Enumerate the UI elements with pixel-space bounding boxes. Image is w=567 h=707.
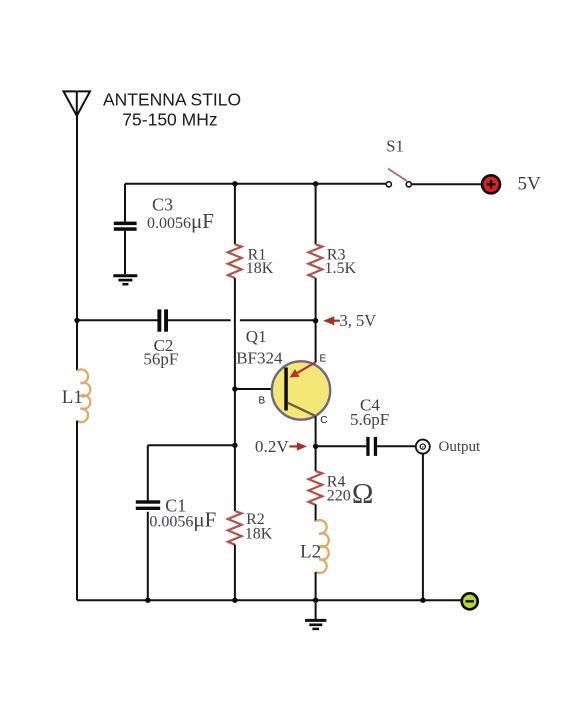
svg-text:BF324: BF324 (236, 348, 283, 367)
junction C1 bottom (145, 598, 150, 603)
wire: antenna lead down to L1 (76, 116, 78, 371)
capacitor C3 (114, 222, 137, 231)
inductor L1 (77, 369, 90, 422)
svg-text:1.5K: 1.5K (325, 260, 357, 277)
wire: C3 branch corner (124, 184, 126, 222)
svg-text:18K: 18K (246, 260, 274, 277)
svg-text:5V: 5V (518, 174, 542, 195)
wire: C1 branch top (148, 444, 235, 446)
capacitor C1 (136, 500, 160, 510)
wire: collector down (315, 416, 317, 471)
ground (bottom rail) (305, 600, 326, 629)
svg-text:Q1: Q1 (246, 327, 267, 346)
connector Output (416, 440, 430, 454)
wire: R3 rail upper (315, 184, 317, 245)
terminal +5V (482, 175, 500, 193)
wire: switch to +5V (411, 183, 482, 185)
svg-text:S1: S1 (386, 137, 403, 156)
svg-text:Output: Output (439, 439, 482, 455)
junction node 0.2V (313, 444, 318, 449)
svg-text:56pF: 56pF (143, 350, 178, 369)
switch S1 (386, 169, 411, 187)
ground (C3) (113, 276, 137, 285)
wire: C3 to ground (124, 231, 126, 274)
antenna (64, 91, 91, 115)
junction C1 branch (232, 443, 237, 448)
wire: R1 rail upper (234, 184, 236, 245)
svg-text:C: C (320, 415, 327, 426)
wire: output row left (316, 445, 367, 447)
wire: output row right (377, 445, 416, 447)
svg-text:C1: C1 (165, 496, 186, 516)
svg-text:L2: L2 (300, 542, 321, 563)
svg-text:ANTENNA STILO: ANTENNA STILO (103, 90, 241, 110)
junction R2 bottom (232, 598, 237, 603)
resistor R2 (228, 511, 242, 545)
svg-text:0.2V: 0.2V (255, 437, 289, 456)
terminal negative (462, 593, 478, 609)
transistor Q1 (272, 361, 330, 419)
wire: base lead (235, 388, 284, 390)
junction on top rail (R3) (313, 181, 318, 186)
junction node 3.5V (313, 318, 318, 323)
wire: L2 to bottom rail (315, 572, 317, 600)
wire: R4 to L2 (315, 504, 317, 521)
wire: L1 to bottom rail (76, 421, 78, 601)
svg-text:L1: L1 (62, 387, 83, 408)
svg-text:Ω: Ω (352, 478, 374, 510)
resistor R3 (309, 244, 323, 278)
wire: C1 to bottom rail (147, 512, 149, 601)
wire: top supply rail (125, 183, 386, 185)
wire: R2 to bottom rail (234, 545, 236, 601)
svg-text:E: E (320, 354, 327, 365)
junction L2 bottom (313, 598, 318, 603)
junction base node (232, 386, 237, 391)
svg-text:75-150 MHz: 75-150 MHz (122, 110, 217, 130)
arrow 0.2V (289, 442, 307, 450)
junction on top rail (R1) (232, 181, 237, 186)
svg-text:B: B (259, 396, 266, 407)
wire: output drop (422, 454, 424, 601)
junction output drop bottom (420, 598, 425, 603)
wire: bottom rail (77, 599, 462, 601)
resistor R4 (309, 471, 323, 505)
resistor R1 (228, 244, 242, 278)
wire: C2 row left (77, 319, 158, 321)
capacitor C2 (157, 309, 168, 331)
wire: C2 row middle (stops before crossing) (168, 319, 231, 321)
wire: base rail (R1 bottom to bottom rail) (234, 278, 236, 511)
svg-text:C3: C3 (152, 195, 173, 215)
svg-text:220: 220 (327, 488, 351, 505)
capacitor C4 (366, 437, 377, 456)
svg-text:3, 5V: 3, 5V (340, 311, 377, 330)
arrow 3.5V (323, 316, 340, 325)
inductor L2 (316, 520, 329, 573)
wire: R3 bottom to emitter (315, 278, 317, 363)
junction at L1 top / C2 (74, 318, 79, 323)
wire: C1 branch down (147, 445, 149, 502)
svg-text:18K: 18K (245, 526, 273, 543)
wire: C2 row right (after crossover) (240, 319, 316, 321)
svg-text:5.6pF: 5.6pF (350, 410, 389, 429)
